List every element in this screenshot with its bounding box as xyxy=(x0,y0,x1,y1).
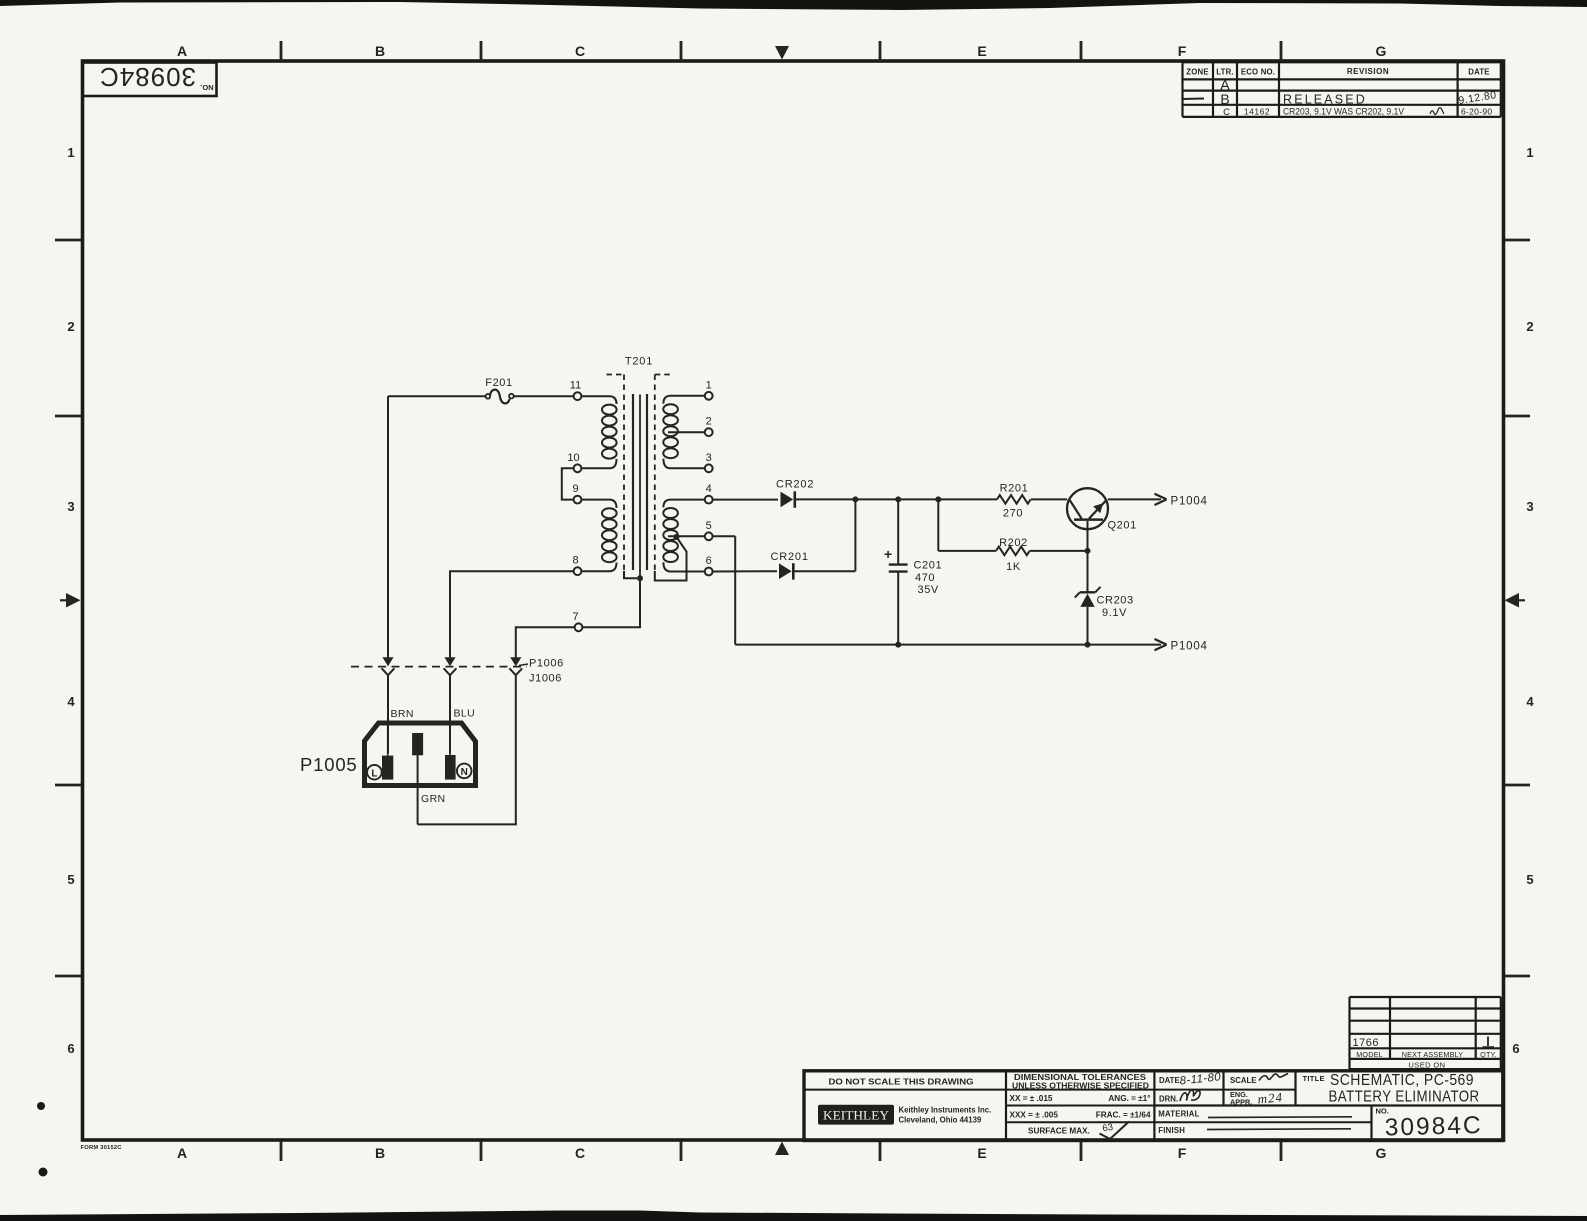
svg-text:FORM 30152C: FORM 30152C xyxy=(81,1145,123,1151)
svg-text:L: L xyxy=(371,768,377,779)
svg-text:1: 1 xyxy=(1526,145,1533,160)
svg-text:QTY.: QTY. xyxy=(1480,1050,1497,1059)
svg-text:C: C xyxy=(575,43,585,59)
svg-text:m24: m24 xyxy=(1257,1089,1284,1106)
svg-text:2: 2 xyxy=(706,416,712,428)
svg-text:TITLE: TITLE xyxy=(1303,1074,1325,1083)
svg-text:2: 2 xyxy=(67,319,74,334)
svg-text:30984C: 30984C xyxy=(1384,1112,1483,1142)
svg-text:C: C xyxy=(1223,107,1230,118)
svg-text:XX = ± .015: XX = ± .015 xyxy=(1010,1094,1053,1103)
svg-text:CR202: CR202 xyxy=(776,479,814,491)
svg-text:P1005: P1005 xyxy=(300,754,358,775)
svg-text:C201: C201 xyxy=(914,560,943,572)
svg-text:MODEL: MODEL xyxy=(1356,1050,1383,1059)
svg-text:10: 10 xyxy=(567,452,579,464)
svg-text:3: 3 xyxy=(67,499,74,514)
svg-text:CR203, 9.1V WAS CR202, 9.1V: CR203, 9.1V WAS CR202, 9.1V xyxy=(1283,107,1404,117)
svg-text:XXX = ± .005: XXX = ± .005 xyxy=(1010,1110,1059,1119)
svg-text:P1004: P1004 xyxy=(1171,495,1208,507)
svg-text:J1006: J1006 xyxy=(529,673,562,685)
svg-text:DRN.: DRN. xyxy=(1159,1094,1178,1103)
svg-text:SCHEMATIC, PC-569: SCHEMATIC, PC-569 xyxy=(1330,1072,1474,1089)
svg-text:E: E xyxy=(977,1145,986,1161)
svg-text:CR203: CR203 xyxy=(1097,595,1134,607)
svg-text:9: 9 xyxy=(572,483,578,495)
svg-text:6: 6 xyxy=(706,555,712,567)
svg-text:2: 2 xyxy=(1526,319,1533,334)
svg-text:NEXT ASSEMBLY: NEXT ASSEMBLY xyxy=(1402,1050,1463,1059)
svg-text:270: 270 xyxy=(1003,508,1023,520)
svg-text:DO NOT SCALE THIS DRAWING: DO NOT SCALE THIS DRAWING xyxy=(829,1077,974,1087)
svg-text:3: 3 xyxy=(706,452,712,464)
svg-text:GRN: GRN xyxy=(421,793,446,805)
svg-text:4: 4 xyxy=(706,483,712,495)
svg-text:R201: R201 xyxy=(1000,483,1029,495)
svg-text:35V: 35V xyxy=(918,584,939,596)
svg-text:MATERIAL: MATERIAL xyxy=(1158,1109,1199,1118)
svg-text:14162: 14162 xyxy=(1244,107,1270,117)
svg-text:NO.: NO. xyxy=(200,83,213,92)
svg-text:F: F xyxy=(1178,1145,1187,1161)
svg-text:ZONE: ZONE xyxy=(1186,68,1208,77)
svg-text:63: 63 xyxy=(1102,1122,1114,1135)
svg-text:F: F xyxy=(1178,43,1187,59)
svg-text:9.1V: 9.1V xyxy=(1102,607,1127,619)
svg-text:30984C: 30984C xyxy=(99,62,196,92)
svg-text:1766: 1766 xyxy=(1353,1037,1379,1049)
svg-text:5: 5 xyxy=(1526,872,1533,887)
svg-text:USED ON: USED ON xyxy=(1409,1060,1446,1069)
svg-text:1: 1 xyxy=(67,145,74,160)
svg-text:CR201: CR201 xyxy=(771,551,809,563)
svg-text:P1006: P1006 xyxy=(529,657,564,669)
svg-text:4: 4 xyxy=(67,694,75,709)
svg-text:BATTERY ELIMINATOR: BATTERY ELIMINATOR xyxy=(1329,1088,1480,1105)
svg-text:Q201: Q201 xyxy=(1108,520,1137,532)
svg-text:C: C xyxy=(575,1145,585,1161)
svg-text:+: + xyxy=(884,546,892,562)
svg-text:B: B xyxy=(375,43,385,59)
svg-text:A: A xyxy=(177,43,187,59)
svg-text:6: 6 xyxy=(1512,1041,1519,1056)
svg-text:F201: F201 xyxy=(485,377,512,389)
svg-text:REVISION: REVISION xyxy=(1347,67,1389,76)
svg-text:1K: 1K xyxy=(1006,561,1021,573)
svg-text:1: 1 xyxy=(706,379,712,391)
svg-text:R202: R202 xyxy=(999,537,1028,549)
svg-text:KEITHLEY: KEITHLEY xyxy=(823,1108,889,1122)
svg-text:8: 8 xyxy=(572,555,578,567)
svg-text:DATE: DATE xyxy=(1159,1076,1180,1085)
svg-text:7: 7 xyxy=(572,611,578,623)
svg-text:B: B xyxy=(1220,91,1229,107)
svg-text:470: 470 xyxy=(915,572,935,584)
svg-text:BLU: BLU xyxy=(454,708,476,720)
svg-text:ANG. = ±1°: ANG. = ±1° xyxy=(1108,1094,1150,1103)
svg-text:6: 6 xyxy=(67,1041,74,1056)
svg-text:3: 3 xyxy=(1526,499,1533,514)
svg-text:Cleveland, Ohio 44139: Cleveland, Ohio 44139 xyxy=(899,1116,982,1125)
svg-text:5: 5 xyxy=(706,520,712,532)
svg-text:A: A xyxy=(177,1145,187,1161)
svg-text:N: N xyxy=(461,767,468,778)
svg-text:6-20-90: 6-20-90 xyxy=(1461,107,1492,117)
svg-text:FINISH: FINISH xyxy=(1158,1126,1185,1135)
svg-text:DATE: DATE xyxy=(1468,68,1489,77)
svg-text:LTR.: LTR. xyxy=(1216,68,1234,77)
svg-text:SCALE: SCALE xyxy=(1230,1076,1256,1085)
svg-text:G: G xyxy=(1376,43,1387,59)
svg-text:11: 11 xyxy=(570,380,581,392)
svg-text:T201: T201 xyxy=(625,356,653,368)
svg-text:E: E xyxy=(977,43,986,59)
svg-text:RELEASED: RELEASED xyxy=(1283,93,1367,107)
svg-text:FRAC. = ±1/64: FRAC. = ±1/64 xyxy=(1096,1111,1151,1120)
svg-text:B: B xyxy=(375,1145,385,1161)
svg-text:P1004: P1004 xyxy=(1171,641,1208,653)
svg-text:SURFACE MAX.: SURFACE MAX. xyxy=(1028,1126,1090,1135)
svg-text:5: 5 xyxy=(67,872,74,887)
svg-text:APPR.: APPR. xyxy=(1230,1098,1252,1107)
svg-text:4: 4 xyxy=(1526,694,1534,709)
svg-text:G: G xyxy=(1376,1145,1387,1161)
svg-text:ECO NO.: ECO NO. xyxy=(1241,68,1275,77)
svg-text:UNLESS OTHERWISE SPECIFIED: UNLESS OTHERWISE SPECIFIED xyxy=(1012,1082,1149,1091)
svg-text:BRN: BRN xyxy=(391,708,414,720)
svg-text:Keithley Instruments Inc.: Keithley Instruments Inc. xyxy=(899,1106,992,1115)
